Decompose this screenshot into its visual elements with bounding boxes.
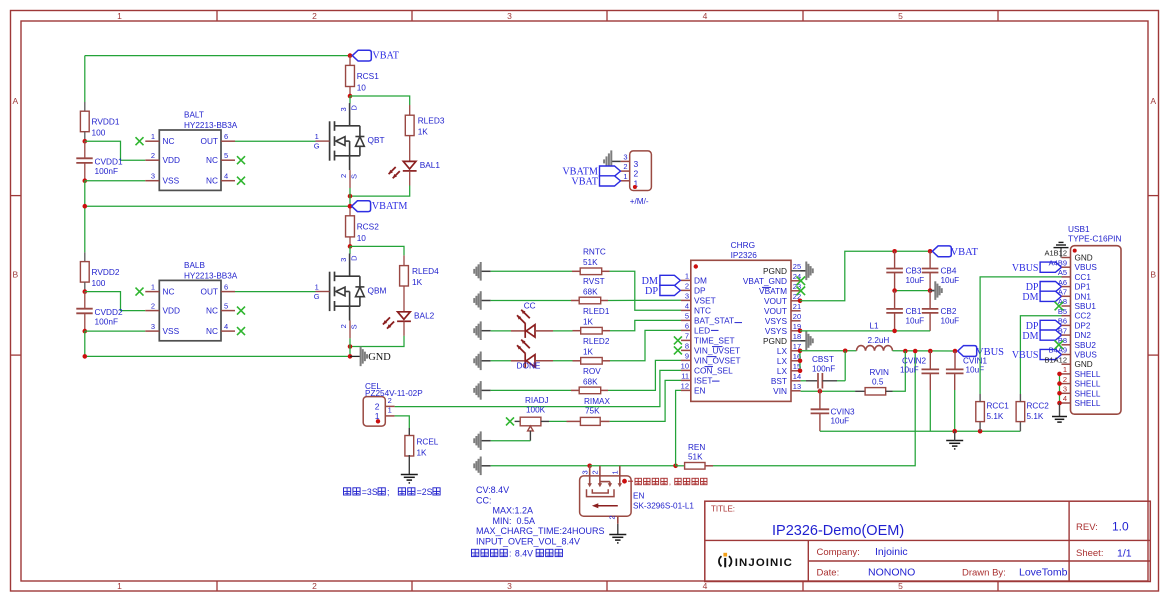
svg-text:MAX_CHARG_TIME:24HOURS: MAX_CHARG_TIME:24HOURS (476, 526, 605, 536)
LED BAL2 (397, 320, 411, 322)
wire QBT drain (349, 96, 351, 104)
resistor RCS1 (346, 65, 355, 86)
svg-text:14: 14 (793, 372, 801, 381)
wire RVST left (491, 300, 571, 302)
wire RIADJ to RIMAX (541, 420, 549, 422)
resistor RCC2 5.1K (1019, 422, 1021, 432)
svg-text:10uF: 10uF (966, 366, 985, 375)
svg-text:DONE: DONE (517, 360, 541, 370)
resistor RLED3 (405, 115, 414, 135)
wire CBST up to LX (844, 351, 846, 381)
svg-text:100K: 100K (526, 406, 546, 415)
svg-text:VSYS: VSYS (765, 316, 788, 326)
svg-text:3: 3 (507, 581, 512, 591)
svg-text:PGND: PGND (763, 266, 787, 276)
svg-text:7: 7 (685, 332, 689, 341)
svg-text:3: 3 (685, 292, 689, 301)
svg-text:3: 3 (339, 258, 348, 262)
wire left rail down to RVDD1 (84, 56, 86, 102)
wire VSS to pin3 (85, 180, 146, 182)
node RCS1 bottom junction (348, 94, 353, 99)
svg-text:EN: EN (694, 385, 706, 395)
svg-text:1K: 1K (583, 318, 594, 327)
wire RLED4 to BAL2 (403, 286, 405, 312)
svg-text:1: 1 (151, 132, 155, 141)
op-amp U CHRG IP2326 body (691, 240, 791, 402)
svg-text:L1: L1 (870, 321, 880, 330)
svg-text:GND: GND (1075, 254, 1093, 263)
ground below RCEL (408, 474, 410, 476)
resistor RLED4 (400, 266, 409, 286)
resistor RCS2 (346, 216, 355, 237)
svg-text:3: 3 (151, 322, 155, 331)
wire CEL pin2 to pin10 CON_SEL (395, 370, 681, 406)
svg-text:2: 2 (591, 470, 600, 474)
svg-text:10uF: 10uF (941, 317, 960, 326)
svg-text:VBAT: VBAT (571, 176, 598, 187)
port VBAT to pin 1 (600, 176, 621, 186)
svg-text:10: 10 (357, 233, 367, 243)
svg-text:3: 3 (507, 11, 512, 21)
svg-text:LED: LED (694, 325, 710, 335)
svg-text:A: A (12, 96, 18, 106)
node VBATM rail junction (83, 204, 88, 209)
svg-text:RVDD2: RVDD2 (92, 267, 120, 277)
LED CC indicator (511, 330, 525, 332)
svg-text:G: G (314, 142, 320, 151)
wire RCC1 to CC1 (980, 277, 1061, 394)
wire REN row left (491, 465, 590, 467)
no-connect pin5 (237, 156, 245, 164)
transistor QBT (316, 103, 365, 170)
svg-text:NC: NC (163, 287, 175, 297)
inductor L1 2.2uH (857, 321, 893, 351)
port DM to B7 (1040, 330, 1061, 340)
svg-text:PZ254V-11-02P: PZ254V-11-02P (365, 389, 423, 398)
svg-text:TYPE-C16PIN: TYPE-C16PIN (1068, 234, 1121, 244)
wire VBATM stub to RCS2 (349, 206, 351, 216)
wire mid rail (895, 290, 931, 292)
svg-text:1/1: 1/1 (1117, 548, 1132, 560)
svg-text:3: 3 (339, 107, 348, 111)
node CBST junction (843, 349, 848, 354)
wire OUT to QBM gate (235, 291, 316, 293)
power ground pin18 (gray) (801, 340, 806, 342)
svg-text:CVIN2: CVIN2 (902, 357, 927, 366)
svg-text:=3S: =3S (362, 487, 378, 497)
node VBATM junction (348, 204, 353, 209)
resistor RLED2 1K (573, 360, 581, 362)
svg-text:2: 2 (151, 301, 155, 310)
node VBAT junction (348, 53, 353, 58)
power port VBUS (958, 346, 977, 357)
resistor RVST 68K (571, 300, 579, 302)
svg-text:1: 1 (315, 132, 319, 141)
svg-text:BST: BST (771, 376, 787, 386)
svg-text:51K: 51K (583, 258, 598, 267)
svg-text:NC: NC (163, 136, 175, 146)
power port VBAT right (932, 246, 951, 257)
wire left rail down to RVDD2 (84, 206, 86, 252)
svg-text:VSYS: VSYS (765, 326, 788, 336)
svg-text:BAL2: BAL2 (414, 310, 435, 320)
svg-text:LX: LX (777, 346, 788, 356)
svg-text:PGND: PGND (763, 336, 787, 346)
switch bottom pin to ground (617, 516, 619, 524)
node RCS2 bottom junction (348, 244, 353, 249)
power ground mid rail (gray) (930, 290, 935, 292)
node CB1 bottom junction (892, 329, 897, 334)
svg-text:RLED4: RLED4 (412, 266, 439, 276)
svg-text:10uF: 10uF (900, 366, 919, 375)
power port VBATM (352, 201, 371, 212)
svg-text:VBUS: VBUS (1075, 263, 1098, 272)
port VBUS to B4A9 (1040, 349, 1061, 359)
svg-text:VIN: VIN (773, 386, 787, 396)
svg-text:RCS1: RCS1 (357, 71, 380, 81)
svg-text:10: 10 (357, 83, 367, 93)
wire left rail to bottom rail (84, 181, 86, 207)
svg-text:BAL1: BAL1 (420, 160, 441, 170)
svg-text:DP: DP (694, 285, 706, 295)
svg-text:2: 2 (608, 515, 617, 519)
wire DONE to RLED2 (535, 360, 553, 362)
wire RNTC left (491, 270, 572, 272)
power ground rail arrow (gray) RNTC row (481, 270, 491, 272)
svg-text:1: 1 (151, 282, 155, 291)
svg-text:NC: NC (206, 306, 218, 316)
wire GND rail (85, 355, 350, 357)
svg-text:CC2: CC2 (1075, 312, 1092, 321)
wire BAL1 to source rail (409, 171, 411, 186)
power ground rail arrow (gray) wiper row (481, 440, 491, 442)
svg-text:QBM: QBM (368, 286, 387, 296)
svg-text:1K: 1K (412, 277, 423, 287)
no-connect pin1 (136, 288, 144, 296)
node CB3 top junction (892, 249, 897, 254)
wire source to bottom rail (349, 196, 351, 206)
svg-text:S: S (350, 324, 359, 329)
svg-text:VOUT: VOUT (764, 306, 787, 316)
svg-text:3: 3 (634, 159, 639, 169)
svg-text:75K: 75K (585, 407, 600, 416)
svg-text:LoveTomb: LoveTomb (1019, 567, 1068, 579)
svg-text:6: 6 (224, 282, 228, 291)
no-connect pin23 VBATM (797, 287, 806, 296)
svg-text:5.1K: 5.1K (1027, 412, 1044, 421)
svg-text:DM: DM (642, 276, 658, 287)
wire ROV left (491, 389, 571, 391)
RIADJ wiper arrow (528, 426, 534, 431)
svg-text:CC: CC (524, 301, 536, 311)
svg-text:100nF: 100nF (812, 365, 835, 374)
logo INJOINIC (719, 553, 793, 569)
wire RIMAX to pin11 ISET (610, 380, 681, 421)
ground below switch (617, 534, 619, 536)
port DM to A7 (1040, 291, 1061, 301)
svg-text:OUT: OUT (200, 287, 218, 297)
svg-text:SHELL: SHELL (1075, 370, 1101, 379)
svg-text:18: 18 (793, 332, 801, 341)
IC left pins 1-12 (681, 272, 741, 396)
svg-text:RCC2: RCC2 (1027, 402, 1050, 411)
connector USB1 TYPE-C16PIN (1068, 224, 1121, 414)
node switch pin junction (587, 464, 592, 469)
port DP to B6 (1040, 320, 1061, 330)
svg-text:GND: GND (1075, 360, 1093, 369)
svg-text:REN: REN (688, 443, 705, 452)
resistor RCEL 1K (405, 436, 414, 457)
note: short=3S / open=2S (Chinese) (344, 488, 351, 495)
capacitor CVIN2 10uF (929, 351, 931, 369)
svg-text:INPUT_OVER_VOL_8.4V: INPUT_OVER_VOL_8.4V (476, 537, 580, 547)
svg-text:QBT: QBT (368, 135, 385, 145)
svg-text:LX: LX (777, 366, 788, 376)
svg-text:VSS: VSS (163, 176, 180, 186)
svg-text:1: 1 (117, 581, 122, 591)
svg-text:RLED2: RLED2 (583, 337, 610, 346)
LED BAL2 emission arrows (383, 317, 390, 324)
capacitor CVDD1 (84, 141, 86, 158)
svg-text:4: 4 (1063, 394, 1067, 403)
wire VSYS rail (800, 330, 930, 332)
wire VOUT up to VBAT rail (800, 251, 930, 300)
wire VDD net to pin2 (85, 141, 146, 160)
svg-text:DP2: DP2 (1075, 321, 1091, 330)
svg-text:CVDD1: CVDD1 (95, 157, 124, 167)
wire RCC2 to CC2 (1020, 316, 1061, 394)
svg-text:CB4: CB4 (941, 267, 957, 276)
svg-text:VOUT: VOUT (764, 296, 787, 306)
svg-text:21: 21 (793, 302, 801, 311)
svg-text:;: ; (387, 487, 389, 497)
svg-text:8.4V: 8.4V (515, 549, 533, 559)
svg-text:RVDD1: RVDD1 (92, 117, 120, 127)
wire ROV to pin9 VIN_OVSET (608, 360, 681, 390)
note: press to power off module (Chinese, dark red) (635, 478, 641, 484)
wire RIADJ wiper to gray ground (529, 431, 531, 441)
svg-text:RVST: RVST (583, 277, 605, 286)
svg-text:4: 4 (224, 172, 228, 181)
capacitor CVIN3 10uF (819, 389, 821, 410)
wire RLED3 to BAL1 (409, 136, 411, 162)
no-connect pin5 (237, 307, 245, 315)
power ground on pin 3 (gray) (612, 160, 621, 162)
svg-text:100: 100 (92, 278, 106, 288)
node VBUS/REN junction (913, 349, 918, 354)
LED DONE indicator (511, 360, 525, 362)
svg-text:DM: DM (694, 275, 707, 285)
IC right pins 25-13 (743, 262, 801, 396)
svg-text:TIME_SET: TIME_SET (694, 335, 735, 345)
svg-text:2.2uH: 2.2uH (868, 336, 890, 345)
svg-text:VBAT_GND: VBAT_GND (743, 276, 787, 286)
svg-text:RCEL: RCEL (417, 438, 439, 447)
svg-text:Injoinic: Injoinic (875, 546, 908, 558)
USB pins (1044, 249, 1100, 408)
svg-text:VBAT: VBAT (372, 50, 399, 61)
port VBUS to A4B9 (1040, 262, 1061, 272)
wire VBAT rail (85, 55, 350, 57)
no-connect pin24 VBAT_GND (797, 277, 806, 286)
node CB3/CB1 junction (892, 288, 897, 293)
svg-text:D: D (350, 105, 359, 111)
svg-text:1: 1 (1063, 365, 1067, 374)
svg-text:VIN_OVSET: VIN_OVSET (694, 355, 741, 365)
port DP to A6 (1040, 282, 1061, 292)
svg-text:6: 6 (685, 322, 689, 331)
power port VBAT top (352, 50, 371, 61)
svg-text:ISET: ISET (694, 375, 712, 385)
node first-pin mark (633, 185, 637, 189)
svg-text:Drawn By:: Drawn By: (962, 568, 1006, 579)
svg-text:CVIN1: CVIN1 (963, 357, 988, 366)
wire OUT to QBT gate (235, 140, 316, 142)
no-connect pin7 TIME_SET (674, 336, 682, 344)
wire L1 to VBUS node (893, 350, 956, 352)
svg-text:B5: B5 (1058, 307, 1067, 316)
svg-text:2: 2 (312, 11, 317, 21)
node GND rail junctions (83, 354, 88, 359)
svg-text:Company:: Company: (817, 547, 860, 558)
no-connect pin4 (237, 327, 245, 335)
svg-text:NC: NC (206, 326, 218, 336)
svg-text:MAX:1.2A: MAX:1.2A (493, 506, 534, 516)
svg-text:VSS: VSS (163, 326, 180, 336)
node RVIN top junction (903, 349, 908, 354)
svg-text:VBATM: VBATM (372, 201, 408, 212)
svg-text:2: 2 (151, 151, 155, 160)
wire RCEL to ground (408, 455, 410, 475)
svg-text:3: 3 (1063, 385, 1067, 394)
capacitor CB4 10uF (929, 251, 931, 268)
node USB first-pin mark (1073, 249, 1077, 253)
power ground rail arrow (gray) RVST row (481, 300, 491, 302)
node CEL first-pin mark (376, 419, 380, 423)
svg-text:TITLE:: TITLE: (711, 505, 735, 514)
svg-text:BALT: BALT (184, 111, 204, 120)
no-connect B8 SBU2 (1055, 341, 1064, 350)
svg-text:DN1: DN1 (1075, 292, 1092, 301)
svg-text:RNTC: RNTC (583, 248, 606, 257)
svg-text:CB3: CB3 (906, 267, 922, 276)
LED BAL1 (403, 170, 417, 172)
svg-text:1: 1 (117, 11, 122, 21)
no-connect A8 SBU1 (1055, 302, 1064, 311)
power ground rail arrow (gray) REN row (481, 465, 491, 467)
svg-text:10uF: 10uF (906, 276, 925, 285)
wire VBAT stub to RCS1 (349, 56, 351, 66)
svg-text:2: 2 (623, 162, 627, 171)
LED BAL1 emission arrows (389, 167, 396, 174)
capacitor CB2 10uF (929, 291, 931, 309)
LED DONE emission arrows (521, 340, 530, 349)
connector J +/M/- (621, 151, 652, 191)
svg-text:DP1: DP1 (1075, 283, 1091, 292)
power ground pin25 (gray) (801, 270, 806, 272)
svg-text:2: 2 (339, 324, 348, 328)
switch EN SK-3296S-01-L1 (580, 466, 632, 516)
svg-text:A: A (1150, 96, 1156, 106)
svg-text:6: 6 (224, 132, 228, 141)
svg-text:=2S: =2S (417, 487, 433, 497)
svg-text:10uF: 10uF (831, 417, 850, 426)
svg-text:BALB: BALB (184, 261, 205, 270)
svg-text:1: 1 (610, 470, 619, 474)
wire up to pin12 EN (676, 390, 681, 465)
svg-text:DP: DP (645, 286, 658, 297)
LED CC emission arrows (521, 310, 530, 319)
svg-text:25: 25 (793, 262, 801, 271)
svg-text:RIADJ: RIADJ (525, 396, 549, 405)
node CVIN1 junction (953, 349, 958, 354)
svg-text:4: 4 (224, 322, 228, 331)
svg-text:DM: DM (1022, 292, 1038, 303)
svg-text:9: 9 (685, 352, 689, 361)
svg-text:10uF: 10uF (941, 276, 960, 285)
svg-text:VBUS: VBUS (1075, 351, 1098, 360)
wire left rail to bottom rail (84, 331, 86, 356)
svg-text:5: 5 (898, 581, 903, 591)
svg-text:RCS2: RCS2 (357, 221, 380, 231)
no-connect pin4 (237, 177, 245, 185)
svg-text:100nF: 100nF (95, 166, 119, 176)
svg-text:NC: NC (206, 155, 218, 165)
wire RVST to pin3 VSET (608, 299, 681, 301)
power ground rail arrow (gray) ROV row (481, 389, 491, 391)
svg-text:CVIN3: CVIN3 (831, 408, 856, 417)
svg-text:B: B (1150, 270, 1156, 280)
svg-text:100: 100 (92, 128, 106, 138)
wire REN to VBUS node (713, 351, 915, 466)
wire RLED2 to pin6 LED (610, 330, 681, 360)
wire RLED1 to pin5 BAT_STAT (610, 320, 681, 330)
note: CV/CC settings text (476, 485, 605, 547)
svg-text:11: 11 (681, 372, 689, 381)
op-amp U BALB HY2213-BB3A (145, 261, 237, 341)
svg-text:1: 1 (388, 406, 392, 415)
wire RVIN up to VBUS node (893, 351, 906, 391)
wire CEL pin1 to RCEL (395, 416, 410, 428)
port DM to pin1 (660, 275, 681, 285)
wire CC to RLED1 (535, 330, 553, 332)
svg-text:SHELL: SHELL (1075, 380, 1101, 389)
svg-text:12: 12 (681, 382, 689, 391)
node QBT source junction (348, 194, 353, 199)
wire RNTC to pin4 NTC (610, 271, 682, 310)
svg-text:B4A9: B4A9 (1049, 346, 1067, 355)
svg-text:VBAT: VBAT (951, 247, 979, 258)
svg-text:RIMAX: RIMAX (584, 397, 610, 406)
svg-text:5: 5 (685, 312, 689, 321)
svg-text:Sheet:: Sheet: (1076, 548, 1103, 559)
svg-text:B7: B7 (1058, 326, 1067, 335)
wire VIN row (801, 390, 856, 392)
ground below SHELL (1059, 403, 1061, 417)
transistor QBM (316, 254, 365, 321)
node CVIN3 junction (818, 389, 823, 394)
capacitor CB3 10uF (894, 251, 896, 268)
svg-text:B1A12: B1A12 (1044, 355, 1067, 364)
svg-text:VDD: VDD (163, 155, 181, 165)
section: title block (705, 501, 1151, 581)
svg-text:VBUS: VBUS (1012, 350, 1039, 361)
wire source to bottom rail (349, 347, 351, 357)
resistor RVDD1 (80, 111, 89, 132)
svg-text:5: 5 (224, 301, 228, 310)
capacitor CVIN1 10uF (954, 351, 956, 369)
svg-text::: : (509, 549, 511, 559)
